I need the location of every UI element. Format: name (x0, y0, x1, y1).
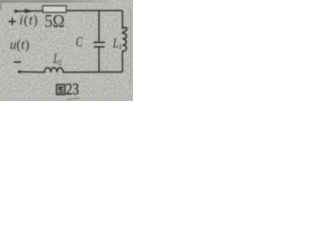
svg-text:2: 2 (58, 58, 62, 67)
svg-text:C: C (76, 34, 83, 50)
svg-text:u(t): u(t) (10, 37, 30, 52)
svg-text:i(t): i(t) (19, 13, 38, 28)
svg-text:5Ω: 5Ω (45, 11, 65, 31)
svg-text:1: 1 (118, 42, 122, 51)
svg-text:23: 23 (66, 81, 79, 99)
